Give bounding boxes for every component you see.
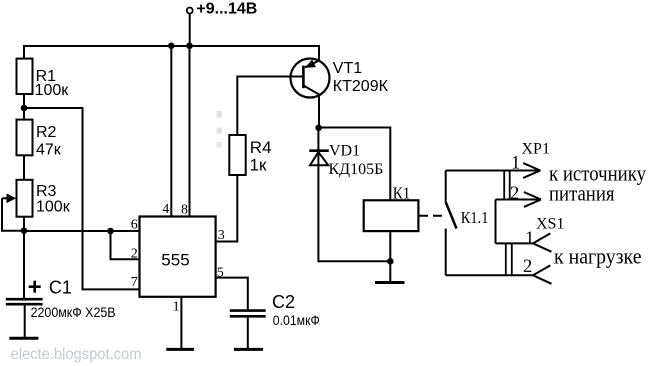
IC U1 555: [140, 217, 216, 297]
wire relay bottom: [389, 231, 391, 282]
wire wiper return: [2, 198, 24, 230]
wire pin1 to ground: [180, 297, 182, 349]
node R3 bottom: [21, 227, 28, 234]
svg-text:XS1: XS1: [536, 216, 564, 233]
svg-text:100к: 100к: [36, 199, 71, 216]
svg-text:4: 4: [162, 202, 169, 217]
wire R3 bottom to C1: [23, 217, 25, 298]
svg-text:100к: 100к: [35, 82, 70, 99]
XP1 pin2 plug arrow: [524, 192, 541, 207]
svg-text:47к: 47к: [36, 142, 62, 159]
svg-text:КТ209К: КТ209К: [333, 78, 389, 95]
wire R4 to base: [237, 77, 302, 136]
ground C2: [234, 348, 263, 351]
svg-text:R3: R3: [36, 183, 57, 200]
svg-text:XP1: XP1: [522, 141, 550, 158]
svg-text:R4: R4: [250, 138, 272, 157]
wire XP1 pin1 stem: [446, 170, 540, 172]
svg-text:2: 2: [131, 246, 138, 261]
resistor R1: [17, 59, 33, 94]
wire XP1.2 to XS1.1: [495, 200, 497, 244]
wire R1 to R2: [23, 94, 25, 120]
wire C2 to ground: [247, 318, 249, 350]
wire to pin2: [111, 231, 140, 259]
wire diode branch: [317, 128, 319, 262]
svg-text:VD1: VD1: [329, 143, 360, 160]
wire C1 to ground: [24, 305, 26, 337]
svg-text:1к: 1к: [250, 155, 267, 174]
svg-text:8: 8: [181, 202, 188, 217]
XP1 pin1 plug arrow: [523, 163, 540, 178]
node R1 R2 junction: [21, 105, 28, 112]
svg-text:2: 2: [523, 257, 532, 277]
R3 wiper arrow: [2, 194, 16, 204]
wire junction to pin7: [24, 108, 140, 289]
wire R2 to R3: [23, 155, 25, 180]
resistor R4: [229, 135, 245, 175]
capacitor C1: [6, 299, 43, 304]
wire XP1 pin2 stem: [496, 199, 542, 201]
node relay bottom: [387, 258, 394, 265]
svg-text:К1: К1: [393, 184, 411, 203]
wire XS1 pin2 stem: [446, 274, 533, 276]
svg-text:К1.1: К1.1: [461, 208, 489, 227]
transistor VT1: [291, 59, 330, 98]
svg-text:555: 555: [161, 250, 189, 269]
svg-text:C1: C1: [49, 277, 72, 297]
wire pin5 to C2: [216, 278, 248, 310]
svg-text:КД105Б: КД105Б: [329, 161, 384, 178]
wire collector: [318, 94, 320, 129]
svg-text:2: 2: [510, 184, 519, 204]
svg-text:R2: R2: [36, 124, 57, 141]
svg-text:питания: питания: [549, 181, 615, 206]
wire node to relay top: [319, 128, 391, 201]
node bus pin4: [168, 43, 175, 50]
node collector: [315, 125, 322, 132]
wire pin4: [170, 46, 172, 217]
connector XS1 body lines: [506, 243, 512, 275]
svg-text:2200мкФ X25В: 2200мкФ X25В: [31, 305, 116, 320]
svg-text:1: 1: [525, 229, 534, 249]
diode VD1: [309, 151, 329, 166]
wire XS1 pin1 stem: [496, 242, 534, 244]
wire node to pin6: [24, 230, 140, 232]
resistor R3 potentiometer: [17, 180, 33, 217]
wire diode bottom to relay node: [318, 260, 390, 262]
capacitor C2: [230, 311, 266, 317]
mechanical link dashed: [419, 215, 447, 217]
node bus pin8: [186, 43, 193, 50]
connector XP1 body lines: [504, 171, 510, 200]
XS1 pin2 socket chevron: [533, 265, 552, 283]
contact K1.1: [446, 171, 457, 276]
resistor R2: [17, 120, 33, 156]
wire pin3 to R4: [216, 135, 238, 242]
watermark artifact dashes: [217, 111, 223, 148]
wire pin8: [189, 46, 191, 217]
ground pin1: [166, 348, 194, 351]
ground C1: [9, 337, 38, 340]
svg-text:VT1: VT1: [333, 60, 362, 77]
svg-text:C2: C2: [272, 292, 295, 312]
XS1 pin1 socket chevron: [533, 233, 552, 251]
svg-text:0.01мкФ: 0.01мкФ: [273, 312, 320, 328]
wire terminal to bus: [189, 14, 191, 47]
power terminal: [187, 8, 193, 14]
svg-text:6: 6: [131, 218, 138, 233]
wire top bus: [24, 46, 319, 60]
ground relay: [375, 281, 405, 284]
svg-text:1: 1: [173, 299, 180, 314]
node pin6 wire: [107, 228, 114, 235]
svg-text:к нагрузке: к нагрузке: [554, 244, 642, 269]
svg-text:+9...14В: +9...14В: [196, 1, 257, 18]
svg-text:electe.blogspot.com: electe.blogspot.com: [11, 346, 142, 363]
capacitor C1 polarity plus: [29, 281, 41, 293]
svg-text:7: 7: [131, 275, 138, 290]
relay K1 coil: [364, 200, 419, 231]
